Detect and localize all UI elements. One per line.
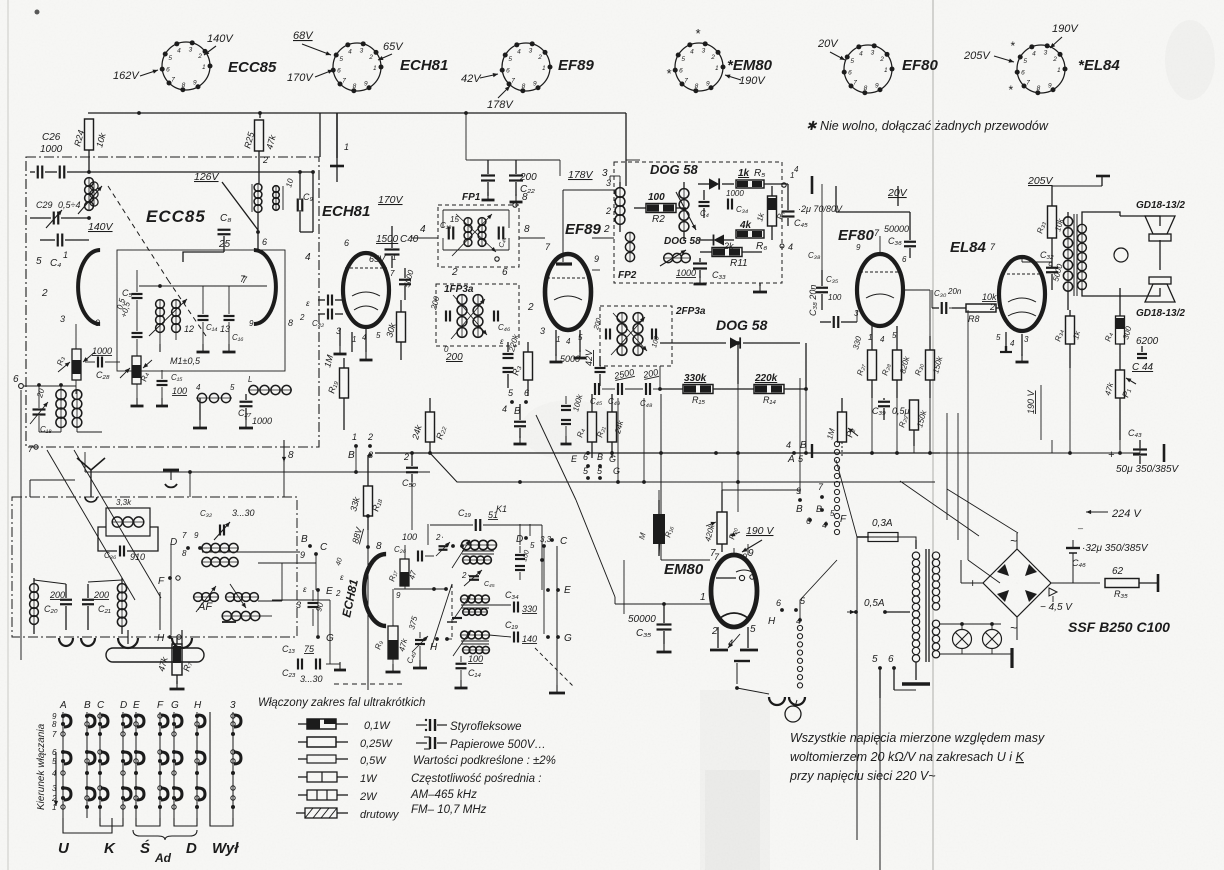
svg-text:*EL84: *EL84 (1078, 57, 1120, 74)
tuner input transformer (170, 531, 238, 567)
svg-text:100: 100 (172, 386, 187, 396)
svg-text:6: 6 (506, 67, 510, 74)
svg-text:DOG 58: DOG 58 (650, 162, 698, 177)
svg-text:9: 9 (1048, 83, 1052, 90)
wire tuner bottoms (238, 552, 432, 664)
svg-text:AM–465 kHz: AM–465 kHz (410, 789, 477, 801)
svg-text:42V: 42V (461, 73, 482, 85)
svg-text:C₃₀: C₃₀ (934, 289, 947, 298)
speaker GD18-13/2 bottom (1136, 277, 1185, 319)
svg-text:przy napięciu sieci 220 V~: przy napięciu sieci 220 V~ (789, 769, 936, 783)
svg-text:4: 4 (566, 337, 571, 346)
svg-text:1: 1 (1057, 67, 1061, 74)
chassis shield connector (163, 470, 179, 487)
long diagonals lower right (836, 460, 979, 537)
svg-text:220k: 220k (754, 373, 778, 384)
resistor R18 33k (348, 455, 383, 530)
svg-text:C₁₄: C₁₄ (468, 668, 481, 678)
svg-text:ε: ε (340, 573, 344, 582)
svg-text:C: C (560, 536, 568, 547)
svg-text:0,25W: 0,25W (360, 738, 393, 750)
caps C41 2500 C42 200 (590, 366, 662, 408)
cap C13 75 (282, 644, 346, 684)
svg-text:EF80: EF80 (902, 57, 939, 74)
svg-text:U: U (58, 840, 70, 857)
heater chain upper (834, 441, 839, 534)
svg-text:0,1W: 0,1W (364, 720, 391, 732)
label EL84 (schematic) (1136, 200, 1185, 211)
svg-text:9: 9 (300, 550, 305, 560)
svg-text:L: L (248, 375, 252, 384)
svg-text:9: 9 (706, 81, 710, 88)
kierunek wlaczania arrow (36, 723, 58, 810)
svg-text:2: 2 (262, 155, 268, 165)
wire vertical 661 to EM80 (624, 500, 661, 614)
capacitor C28 1000 (85, 346, 120, 380)
triode ECC85a envelope (41, 250, 100, 328)
svg-text:7: 7 (853, 80, 857, 87)
svg-text:C₉: C₉ (303, 192, 313, 202)
svg-text:C₁₃: C₁₃ (282, 644, 295, 654)
capacitor C34 1000 (726, 189, 748, 214)
cap C19 51 (430, 504, 542, 560)
svg-text:H: H (157, 633, 165, 644)
gang link dashed vertical (452, 584, 574, 687)
svg-text:2: 2 (197, 53, 202, 60)
svg-text:C₂₁: C₂₁ (98, 604, 111, 614)
svg-text:C₄₈: C₄₈ (640, 399, 653, 408)
resistor R2 100 (634, 192, 686, 225)
resistor R22 24k (410, 398, 448, 452)
svg-text:75: 75 (304, 644, 315, 654)
svg-text:9: 9 (249, 319, 254, 328)
svg-text:0,5÷4: 0,5÷4 (58, 200, 80, 210)
svg-text:2: 2 (368, 54, 373, 61)
svg-text:3: 3 (189, 47, 193, 54)
svg-text:5: 5 (681, 56, 685, 63)
svg-text:4: 4 (177, 47, 181, 54)
legend resistor 0,25W (298, 737, 393, 750)
caps C22 200 near FP1 (470, 160, 540, 202)
svg-text:140V: 140V (207, 33, 234, 45)
IF transformer FP1 box (438, 192, 519, 267)
resistor R4 100k (571, 392, 596, 458)
misc top wires (466, 113, 640, 182)
svg-text:C₃₈ 20n: C₃₈ 20n (808, 285, 818, 316)
legend paper cap (416, 737, 546, 751)
speaker GD18-13/2 top (1145, 216, 1175, 241)
svg-text:5: 5 (850, 58, 854, 65)
svg-text:C₅: C₅ (122, 288, 132, 298)
svg-text:2: 2 (335, 589, 341, 598)
svg-text:9: 9 (396, 591, 401, 600)
resistor R29 150k (897, 400, 928, 446)
svg-text:4: 4 (880, 335, 885, 344)
tube socket EF80 top view (842, 43, 939, 95)
mains transformer (872, 540, 940, 698)
svg-text:C₄: C₄ (50, 258, 61, 269)
svg-text:C₄₆: C₄₆ (1072, 558, 1086, 568)
node 8 bottom (282, 440, 294, 497)
label 190V EM80 (742, 525, 774, 552)
wire bus x=626 down (320, 111, 626, 186)
svg-text:4: 4 (1032, 50, 1036, 57)
svg-text:R₃₅: R₃₅ (1114, 589, 1128, 599)
svg-text:ε: ε (306, 299, 310, 308)
capacitor C26 1000 (30, 132, 91, 179)
pilot connector (734, 661, 805, 722)
switch matrix (51, 700, 241, 818)
svg-text:140V: 140V (88, 221, 114, 233)
resistor R17 47 (387, 545, 418, 589)
svg-text:C40: C40 (400, 234, 419, 245)
svg-text:1FP3a: 1FP3a (444, 284, 474, 295)
voltage label 190V at EL84 (1050, 23, 1079, 48)
IF transformer 2FP3a box (600, 306, 706, 366)
wire 190V down (968, 385, 1041, 583)
trimmer capacitor C29 0,5-4 (30, 200, 91, 228)
svg-text:3: 3 (529, 48, 533, 55)
resistor R14 220k (754, 373, 808, 405)
heater chain lower (797, 625, 802, 688)
wire EF89 to FP2 (592, 200, 620, 270)
terminal bar right of FP2 (788, 165, 812, 194)
svg-text:C₃₂: C₃₂ (1040, 250, 1054, 260)
svg-text:190 V: 190 V (1026, 389, 1036, 414)
svg-text:C: C (97, 700, 105, 711)
svg-text:65V: 65V (369, 254, 386, 264)
svg-text:C₂₃: C₂₃ (282, 668, 296, 678)
svg-text:B: B (348, 450, 355, 461)
svg-text:5: 5 (872, 654, 878, 665)
svg-text:7: 7 (182, 531, 187, 540)
svg-text:190V: 190V (1052, 23, 1079, 35)
svg-text:7: 7 (684, 78, 688, 85)
svg-text:C₁₈: C₁₈ (40, 425, 52, 434)
svg-text:5: 5 (339, 56, 343, 63)
resistor R4 300 (1103, 296, 1133, 366)
bridge connections (930, 533, 1100, 640)
svg-text:3: 3 (1024, 335, 1029, 344)
svg-text:205V: 205V (1027, 175, 1054, 187)
svg-text:9: 9 (194, 531, 199, 540)
cap C43 50u (1108, 428, 1180, 475)
svg-text:Wszystkie napięcia mierzone: Wszystkie napięcia mierzone względem mas… (790, 731, 1045, 745)
cap C19 140 (489, 620, 537, 644)
svg-text:7: 7 (1026, 80, 1030, 87)
node 7 bottom left (28, 444, 38, 454)
resistor R9 47k (373, 589, 409, 672)
svg-text:100: 100 (648, 192, 665, 203)
cap C32 (1040, 250, 1065, 290)
label DOG 58 top (650, 162, 698, 177)
svg-text:3: 3 (871, 50, 875, 57)
svg-text:9: 9 (533, 81, 537, 88)
tube socket EM80 top view (666, 26, 773, 93)
FM detector transformer (252, 184, 283, 234)
caps C46 C49 cluster (561, 396, 572, 444)
svg-text:65V: 65V (383, 41, 404, 53)
svg-text:Włączony zakres fal ultrakrótk: Włączony zakres fal ultrakrótkich (258, 697, 425, 709)
svg-text:8: 8 (695, 83, 699, 90)
svg-text:ECC85: ECC85 (146, 207, 206, 226)
node D 5 3,3 C (516, 534, 568, 550)
svg-text:C29: C29 (36, 200, 53, 210)
svg-text:5: 5 (1023, 58, 1027, 65)
wire nodes C E G vertical (530, 524, 564, 634)
svg-text:C₄₃: C₄₃ (1128, 428, 1142, 438)
svg-text:C₃₆: C₃₆ (888, 236, 902, 246)
svg-text:EL84: EL84 (950, 239, 987, 256)
svg-text:G: G (613, 466, 620, 476)
wire from R18 down (366, 530, 382, 690)
ground FP2 below (753, 283, 767, 292)
svg-text:C₂₈: C₂₈ (96, 370, 110, 380)
svg-text:GD18-13/2: GD18-13/2 (1136, 308, 1185, 319)
svg-text:1: 1 (352, 335, 356, 344)
wires at 453 bus verticals (368, 398, 930, 455)
svg-text:4: 4 (517, 48, 521, 55)
right rail tuner (540, 546, 565, 693)
cap C36 50000 (884, 212, 916, 258)
wire node6 down left (21, 386, 76, 660)
svg-text:3: 3 (854, 309, 859, 318)
svg-text:2: 2 (403, 452, 409, 462)
svg-text:M1±0,5: M1±0,5 (170, 356, 201, 366)
resistor R20 420k (703, 490, 747, 562)
cap C46 32u (1066, 528, 1149, 583)
svg-text:9: 9 (748, 548, 754, 559)
node H left (157, 633, 181, 644)
svg-text:2: 2 (605, 206, 611, 216)
capacitor C9 (284, 170, 313, 232)
svg-text:C₁₅: C₁₅ (171, 373, 183, 382)
cap C34 330 (489, 590, 537, 614)
antenna mast terminal (330, 113, 349, 182)
choke and C27 1000 (193, 375, 292, 428)
svg-text:C₅₀: C₅₀ (402, 478, 416, 488)
legend IF note (411, 773, 541, 785)
svg-text:1: 1 (700, 592, 706, 603)
svg-text:C 44: C 44 (1132, 362, 1154, 373)
svg-text:200: 200 (93, 590, 109, 600)
svg-text:FP1: FP1 (462, 192, 481, 203)
label 170V (378, 194, 404, 206)
wire plate to pin7 (139, 275, 267, 288)
wires middle verticals to bus (520, 378, 800, 512)
node 6 left edge (13, 374, 23, 388)
svg-text:2: 2 (1052, 56, 1057, 63)
resistor R28 820k (880, 326, 911, 398)
svg-text:3: 3 (360, 48, 364, 55)
label 178V node 3 (563, 168, 616, 196)
label EM80 (schematic) (664, 561, 704, 578)
diode D3 DOG58 AM (660, 337, 800, 348)
svg-text:8: 8 (353, 83, 357, 90)
note all voltages line2 (790, 750, 1025, 764)
resistor R30 150k (913, 336, 944, 398)
svg-text:7: 7 (171, 77, 175, 84)
svg-text:6: 6 (776, 598, 781, 608)
diagonal wires to tuner (47, 450, 161, 600)
label EF80 (schematic) (838, 227, 880, 244)
connector plug (106, 630, 204, 662)
svg-text:8: 8 (522, 83, 526, 90)
resistor R27 330 (851, 326, 876, 398)
cap 90 trimmer (296, 585, 333, 626)
svg-text:8: 8 (52, 720, 57, 729)
svg-text:2: 2 (41, 288, 48, 299)
label EL84 text (950, 239, 996, 256)
svg-text:178V: 178V (568, 169, 594, 181)
svg-text:C₂₆: C₂₆ (394, 545, 407, 554)
svg-text:ECC85: ECC85 (228, 59, 277, 76)
svg-text:E: E (133, 700, 140, 711)
svg-text:R₆: R₆ (756, 241, 767, 252)
svg-text:Papierowe 500V…: Papierowe 500V… (450, 739, 546, 751)
svg-text:6: 6 (166, 66, 170, 73)
svg-text:15: 15 (450, 215, 459, 224)
svg-text:~: ~ (1010, 534, 1017, 548)
resistor 30k (384, 300, 405, 360)
svg-text:330k: 330k (684, 373, 707, 384)
cap C14 100 (455, 654, 484, 688)
svg-text:ε: ε (303, 585, 307, 594)
FP2 bottom coil (660, 250, 690, 266)
capacitor C31 (699, 190, 710, 218)
svg-text:1000: 1000 (726, 189, 744, 198)
cap C45 2u70/80V (782, 184, 843, 228)
svg-text:ε: ε (500, 337, 504, 346)
svg-text:2⋅: 2⋅ (461, 571, 469, 580)
resistor R5 with arrows (120, 352, 152, 406)
svg-text:2: 2 (710, 54, 715, 61)
dashed gang link (108, 186, 206, 336)
svg-text:1000: 1000 (252, 416, 272, 426)
svg-text:H: H (194, 700, 202, 711)
terminal 205V bar (1096, 176, 1110, 186)
svg-text:8: 8 (182, 549, 187, 558)
svg-text:3,3k: 3,3k (116, 498, 132, 507)
svg-text:2: 2 (299, 313, 305, 322)
svg-text:A: A (787, 454, 795, 465)
svg-text:C₃₄: C₃₄ (736, 205, 748, 214)
ferrite rod coil C20 (30, 578, 72, 634)
svg-text:FM– 10,7 MHz: FM– 10,7 MHz (411, 804, 487, 816)
svg-text:C₃₅: C₃₅ (826, 275, 839, 284)
svg-text:− 4,5 V: − 4,5 V (1040, 602, 1073, 613)
svg-text:B: B (84, 700, 91, 711)
svg-text:B: B (796, 504, 803, 515)
label 65V (369, 254, 386, 264)
svg-text:DOG 58: DOG 58 (664, 236, 701, 247)
svg-text:1000: 1000 (676, 268, 696, 278)
tube EL84 envelope (989, 257, 1053, 348)
svg-text:3: 3 (60, 314, 65, 324)
pin labels ECH81 (336, 238, 396, 344)
switch node A B 4 5 (786, 440, 812, 465)
grid resistor R8 10k (952, 292, 1000, 324)
socket hooks under coils (59, 638, 95, 646)
resistor R35 62 (1105, 566, 1158, 599)
svg-text:4: 4 (786, 440, 791, 450)
svg-text:Ad: Ad (154, 851, 172, 865)
tuner coil pair 3 (222, 611, 272, 622)
wire to EM80 from bus (576, 500, 615, 604)
svg-text:7: 7 (52, 730, 57, 739)
svg-text:1: 1 (63, 250, 68, 260)
svg-text:R2: R2 (652, 214, 665, 225)
svg-text:SSF B250 C100: SSF B250 C100 (1068, 619, 1170, 635)
svg-text:8: 8 (288, 318, 293, 328)
note: do not connect any wires (806, 119, 1049, 133)
node 1 2 B 3 (348, 432, 373, 461)
svg-text:3: 3 (1044, 50, 1048, 57)
svg-text:C₁₆: C₁₆ (232, 333, 244, 342)
grid capacitor C5 (115, 288, 132, 311)
caps C at EF89 left (503, 342, 514, 388)
svg-text:2: 2 (451, 267, 458, 278)
svg-text:woltomierzem 20 kΩ/V na zakre: woltomierzem 20 kΩ/V na zakresach U i K (790, 750, 1025, 764)
label 205V (1027, 175, 1054, 187)
svg-text:4k: 4k (739, 220, 752, 231)
wire triode to coil (394, 587, 448, 591)
svg-text:2FP3a: 2FP3a (675, 306, 706, 317)
wire EL84 to bus (940, 368, 1140, 472)
voltage label 205V at EL84 (963, 50, 1014, 63)
svg-text:FP2: FP2 (618, 270, 637, 281)
svg-text:1: 1 (373, 65, 377, 72)
grid caps ECH81 (299, 295, 343, 329)
svg-text:6: 6 (583, 452, 588, 462)
svg-text:C₄₅: C₄₅ (484, 581, 495, 588)
svg-text:126V: 126V (194, 171, 220, 183)
svg-text:B: B (301, 534, 308, 545)
resistor R6 4k (723, 220, 767, 252)
diode D1 DOG58 (698, 178, 734, 189)
svg-text:10k: 10k (982, 292, 997, 302)
wire AM det to bus (736, 341, 806, 449)
svg-text:5: 5 (168, 55, 172, 62)
svg-text:6: 6 (344, 238, 349, 248)
svg-text:C₂₀: C₂₀ (44, 604, 58, 614)
resistor R34 1k (1053, 310, 1082, 368)
svg-text:5: 5 (996, 333, 1001, 342)
svg-text:E: E (564, 585, 571, 596)
svg-text:6: 6 (902, 255, 907, 264)
svg-text:1000: 1000 (40, 144, 63, 155)
capacitor C15 100 (156, 370, 187, 406)
output transformer (1052, 186, 1102, 310)
resistor R21 24k (595, 394, 625, 458)
svg-text:2: 2 (367, 432, 373, 442)
svg-text:7: 7 (710, 548, 716, 559)
svg-text:330: 330 (522, 604, 537, 614)
resistor R3 with arrows (55, 324, 95, 394)
main bus B+ (375, 451, 940, 455)
svg-text:K: K (104, 840, 116, 857)
trimmer 23 (435, 533, 464, 556)
svg-text:¯: ¯ (1077, 528, 1084, 538)
legend resistor 1W (298, 772, 378, 785)
node G (546, 633, 572, 644)
svg-text:6: 6 (524, 388, 529, 398)
svg-text:*: * (1010, 39, 1015, 53)
resistor R5 1k (736, 168, 794, 188)
svg-text:0,5μ: 0,5μ (892, 406, 910, 416)
svg-text:3,3: 3,3 (540, 535, 552, 544)
svg-text:20n: 20n (947, 287, 962, 296)
